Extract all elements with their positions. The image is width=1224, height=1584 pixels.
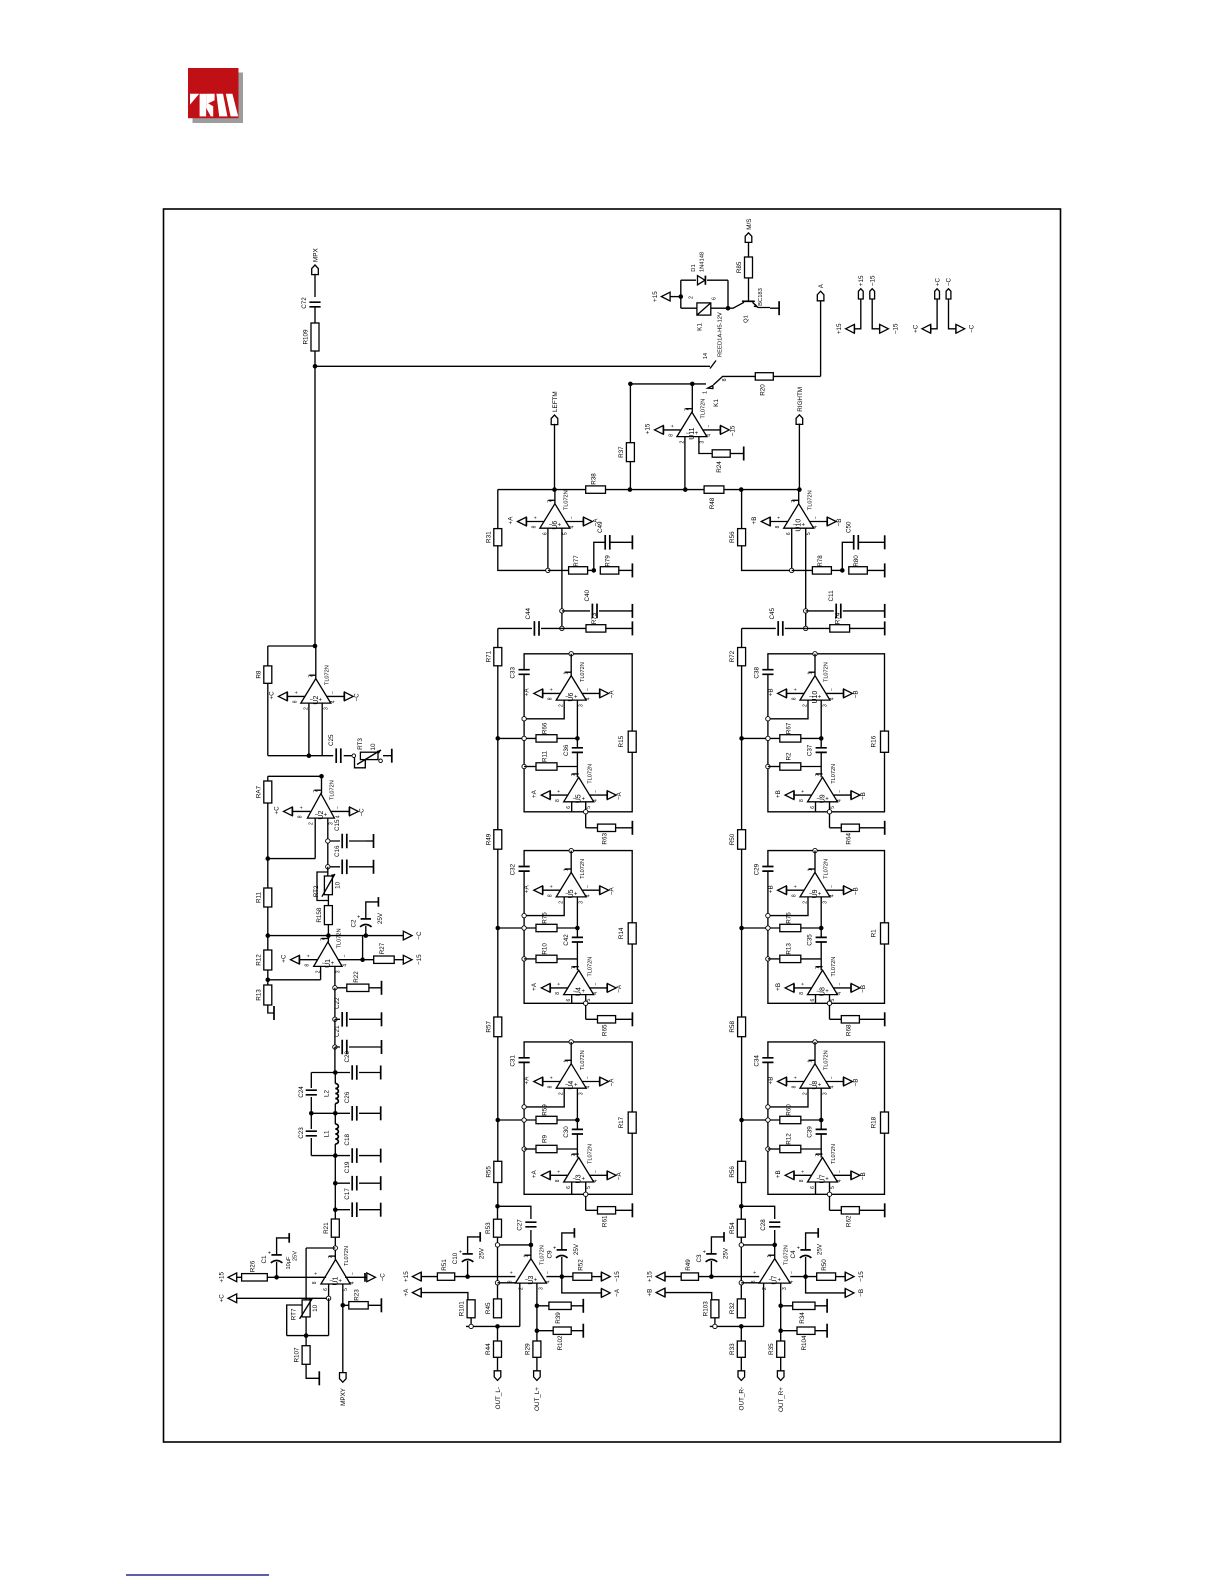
svg-text:R49: R49 xyxy=(485,833,492,845)
svg-text:+: + xyxy=(777,516,783,519)
svg-text:R52: R52 xyxy=(577,1259,584,1271)
capacitor C50 xyxy=(845,521,858,550)
svg-text:8: 8 xyxy=(722,378,728,381)
svg-text:+: + xyxy=(753,1271,759,1274)
wire RT2 wiper loop xyxy=(317,872,328,906)
svg-text:+C: +C xyxy=(934,278,941,287)
node feedback xyxy=(529,1243,534,1248)
op-amp U8 xyxy=(775,957,867,1002)
svg-text:3: 3 xyxy=(699,440,705,443)
wire edge to R10 xyxy=(524,958,536,960)
wire edge to R9 xyxy=(524,1148,536,1150)
terminal bar (R23) xyxy=(380,1298,382,1312)
terminal bar (C22) xyxy=(381,1012,383,1026)
svg-text:7: 7 xyxy=(571,773,577,776)
node C16 junction xyxy=(326,865,330,869)
node left edge pin2 xyxy=(522,717,526,721)
svg-text:U10: U10 xyxy=(796,519,803,532)
wire C15 line xyxy=(328,840,366,842)
capacitor C36 xyxy=(563,744,583,756)
power arrow -15 (U1a) xyxy=(403,954,423,965)
wire R12 to mid xyxy=(801,1148,821,1150)
svg-text:+: + xyxy=(314,1272,320,1275)
capacitor C27 xyxy=(516,1219,536,1231)
switch K1 contact xyxy=(703,376,729,407)
node rail R12/R13 xyxy=(266,978,271,983)
svg-text:R8: R8 xyxy=(255,670,262,679)
terminal bar (R65) xyxy=(631,1012,633,1026)
svg-text:R61: R61 xyxy=(602,1215,609,1227)
power arrow +C xyxy=(930,325,932,334)
node R45 bottom xyxy=(495,1324,500,1329)
wire U11 pin3 to R24 xyxy=(699,437,712,454)
svg-text:4: 4 xyxy=(593,1179,599,1182)
svg-text:−C: −C xyxy=(946,278,953,287)
wire U9 pin5 down xyxy=(829,802,831,828)
node left edge pin2 xyxy=(522,1105,526,1109)
svg-text:−: − xyxy=(586,688,592,691)
wire R20 to A xyxy=(773,300,820,377)
svg-text:8: 8 xyxy=(792,894,798,897)
wire C1 lead xyxy=(276,1262,278,1277)
node bottom edge xyxy=(827,810,831,814)
svg-text:2: 2 xyxy=(308,822,314,825)
svg-text:8: 8 xyxy=(548,1085,554,1088)
svg-text:C18: C18 xyxy=(344,1134,351,1146)
wire U6 output stub xyxy=(570,654,572,676)
wire R23 leads xyxy=(343,1304,382,1306)
wire MPX to switch contact 14 xyxy=(315,365,710,367)
svg-text:C16: C16 xyxy=(334,845,341,857)
wire R9 to mid xyxy=(557,1148,577,1150)
op-amp U4 xyxy=(531,957,623,1002)
wire U10 output stub xyxy=(798,490,800,504)
svg-text:1N4148: 1N4148 xyxy=(700,252,706,272)
terminal bar (C19) xyxy=(380,1176,382,1190)
wire RIGHTM down xyxy=(798,424,800,490)
svg-text:−: − xyxy=(350,1272,356,1275)
svg-text:TL072N: TL072N xyxy=(807,490,813,510)
power connector −C xyxy=(946,278,953,299)
terminal bar (R68) xyxy=(884,1012,886,1026)
wire RA7 to line xyxy=(267,803,269,859)
power connector −15 xyxy=(869,275,876,299)
wire L2 leads xyxy=(334,1073,336,1114)
svg-text:U9: U9 xyxy=(820,794,827,803)
resistor R21 xyxy=(323,1219,340,1237)
wire U8 pin2 loop xyxy=(768,1088,808,1107)
svg-text:+: + xyxy=(509,1271,515,1274)
svg-text:TL072N: TL072N xyxy=(824,859,830,879)
wire rail top segment xyxy=(741,628,743,647)
node C21 junction xyxy=(333,1045,337,1049)
svg-text:+B: +B xyxy=(775,1170,782,1178)
wire U2b pin2 down xyxy=(314,818,316,859)
svg-text:14: 14 xyxy=(703,353,709,359)
node ladder C26 xyxy=(333,1111,338,1116)
svg-text:8: 8 xyxy=(304,964,310,967)
power arrow −A xyxy=(601,1289,603,1298)
terminal bar (R64) xyxy=(884,821,886,835)
svg-text:R55: R55 xyxy=(485,1166,492,1178)
terminal bar (C21) xyxy=(381,1040,383,1054)
node R103 bottom xyxy=(713,1324,717,1328)
op-amp U9 xyxy=(775,764,867,809)
resistor R37 xyxy=(618,443,635,462)
connector A xyxy=(817,283,825,301)
svg-text:C20: C20 xyxy=(344,1050,351,1062)
power connector +15 xyxy=(858,275,865,299)
svg-text:OUT_R-: OUT_R- xyxy=(739,1387,746,1410)
wire C24 to node B xyxy=(310,1097,312,1113)
svg-text:+: + xyxy=(670,425,676,428)
wire U4 pin5 down xyxy=(585,995,587,1020)
svg-text:C4: C4 xyxy=(790,1250,797,1259)
wire to −A arrow xyxy=(562,1277,602,1293)
power arrow -C (U1a node) xyxy=(403,931,423,940)
svg-text:C24: C24 xyxy=(298,1086,305,1098)
svg-text:−C: −C xyxy=(969,324,976,333)
svg-text:R24: R24 xyxy=(716,461,723,473)
svg-text:+: + xyxy=(801,983,807,986)
wire C72 to R109 xyxy=(314,307,316,323)
svg-text:R18: R18 xyxy=(871,1116,878,1128)
svg-text:R17: R17 xyxy=(618,1116,625,1128)
wire edge to R12 xyxy=(768,1148,780,1150)
resistor R101 xyxy=(459,1300,476,1318)
wire +A to R101 xyxy=(421,1293,468,1300)
svg-text:+: + xyxy=(801,1170,807,1173)
svg-text:+: + xyxy=(703,1250,706,1256)
resistor R103 xyxy=(702,1300,719,1318)
resistor R15 xyxy=(618,731,636,752)
svg-text:R39: R39 xyxy=(555,1312,562,1324)
wire RT7 wiper loop xyxy=(287,1305,302,1336)
terminal bar (R62) xyxy=(884,1203,886,1217)
wire bus corner down xyxy=(497,490,499,529)
svg-text:R80: R80 xyxy=(853,555,860,567)
svg-text:R67: R67 xyxy=(785,722,792,734)
connector OUT_R- xyxy=(738,1371,745,1381)
resistor R71 xyxy=(485,648,502,666)
node bottom edge xyxy=(584,1192,588,1196)
terminal bar (R13) xyxy=(273,1006,275,1020)
wire mid vertical xyxy=(820,1088,822,1157)
svg-text:R9: R9 xyxy=(542,1134,549,1143)
node left edge pin2 xyxy=(766,913,770,917)
wire C3 lead xyxy=(710,1261,712,1277)
svg-text:3: 3 xyxy=(538,1287,544,1290)
resistor R57 xyxy=(485,1017,502,1037)
svg-text:10: 10 xyxy=(370,743,377,751)
trimmer RT7 xyxy=(291,1298,320,1320)
op-amp U6 (first half) xyxy=(507,490,599,535)
wire R64 line xyxy=(830,827,885,829)
svg-text:1: 1 xyxy=(523,1255,529,1258)
wire +15 to R26 xyxy=(237,1276,242,1278)
svg-text:C35: C35 xyxy=(807,934,814,946)
svg-text:R71: R71 xyxy=(485,650,492,662)
wire R51 to U3 xyxy=(455,1276,516,1278)
svg-text:3: 3 xyxy=(823,704,829,707)
svg-text:TL072N: TL072N xyxy=(337,928,343,948)
wire R44 leads xyxy=(497,1326,499,1372)
svg-text:4: 4 xyxy=(593,992,599,995)
wire R107 ground stub xyxy=(306,1364,319,1378)
svg-text:+C: +C xyxy=(280,954,287,963)
svg-text:C30: C30 xyxy=(563,1126,570,1138)
capacitor C11 xyxy=(828,590,841,618)
svg-text:25V: 25V xyxy=(479,1247,486,1259)
svg-text:−B: −B xyxy=(860,985,867,993)
svg-text:−: − xyxy=(335,806,341,809)
svg-text:−: − xyxy=(789,1271,795,1274)
wire -C node to R27 line xyxy=(362,936,364,960)
wire R2 to mid xyxy=(801,766,821,768)
wire U8 output stub xyxy=(814,1042,816,1064)
svg-text:8: 8 xyxy=(751,1280,757,1283)
wire U11 output stub xyxy=(691,384,693,412)
capacitor C32 xyxy=(510,863,530,875)
wire bus corner down xyxy=(741,490,743,529)
node MPX-switch junction xyxy=(313,364,318,369)
capacitor C26 xyxy=(344,1091,357,1120)
node U10a output xyxy=(797,487,802,492)
wire to RA7 xyxy=(268,776,322,781)
terminal bar (C49) xyxy=(631,535,633,549)
svg-text:+: + xyxy=(306,954,312,957)
wire U3 pin6 down xyxy=(571,1182,573,1194)
svg-text:C34: C34 xyxy=(753,1055,760,1067)
svg-text:R2: R2 xyxy=(785,752,792,761)
svg-text:8: 8 xyxy=(292,700,298,703)
svg-text:C11: C11 xyxy=(828,590,835,602)
svg-text:3: 3 xyxy=(782,1287,788,1290)
svg-text:OUT_L+: OUT_L+ xyxy=(534,1387,541,1411)
wire L1 leads xyxy=(334,1113,336,1155)
wire R102 line xyxy=(537,1330,583,1332)
terminal bar (R74) xyxy=(884,621,886,635)
terminal bar (C50) xyxy=(884,535,886,549)
svg-text:U7: U7 xyxy=(820,1174,827,1183)
svg-text:R65: R65 xyxy=(602,1024,609,1036)
svg-text:R57: R57 xyxy=(485,1021,492,1033)
wire R73 end xyxy=(606,627,633,629)
resistor R158 xyxy=(316,906,333,925)
svg-text:C37: C37 xyxy=(807,744,814,756)
wire pin2 line xyxy=(268,858,315,860)
svg-text:TL072N: TL072N xyxy=(831,1144,837,1164)
resistor R29 xyxy=(524,1341,541,1357)
node R32 bottom xyxy=(739,1324,744,1329)
svg-text:R68: R68 xyxy=(845,1024,852,1036)
svg-text:R104: R104 xyxy=(801,1335,808,1351)
svg-text:C32: C32 xyxy=(510,863,517,875)
wire U6 pin6 down xyxy=(547,528,549,570)
wire R37 to bus xyxy=(629,462,631,490)
svg-text:4: 4 xyxy=(342,964,348,967)
node output power xyxy=(803,1274,808,1279)
resistor R79 xyxy=(600,555,619,574)
svg-text:8: 8 xyxy=(668,434,674,437)
svg-text:R12: R12 xyxy=(785,1133,792,1145)
wire to R73 xyxy=(806,627,830,629)
svg-text:+B: +B xyxy=(775,790,782,798)
wire R103 bottom xyxy=(714,1318,716,1327)
svg-text:U6: U6 xyxy=(552,521,559,530)
svg-text:+: + xyxy=(797,1246,800,1252)
svg-text:1: 1 xyxy=(808,868,814,871)
svg-text:R45: R45 xyxy=(485,1302,492,1314)
svg-text:+A: +A xyxy=(524,1076,531,1085)
wire R24 end xyxy=(730,453,744,455)
svg-text:+C: +C xyxy=(273,806,280,815)
svg-text:4: 4 xyxy=(706,434,712,437)
resistor RA7 xyxy=(255,781,272,803)
svg-text:8: 8 xyxy=(297,815,303,818)
resistor R50 xyxy=(729,830,746,850)
svg-text:−A: −A xyxy=(616,791,623,800)
node rail tap xyxy=(496,736,501,741)
svg-text:R50: R50 xyxy=(821,1259,828,1271)
svg-text:+: + xyxy=(793,688,799,691)
svg-text:R38: R38 xyxy=(591,473,598,485)
wire filter box outline xyxy=(768,851,885,1004)
node rail tap xyxy=(496,1118,501,1123)
capacitor C19 xyxy=(344,1161,357,1190)
wire R63 line xyxy=(586,827,633,829)
node U10 output xyxy=(813,652,817,656)
svg-text:C40: C40 xyxy=(584,589,591,601)
capacitor C39 xyxy=(807,1126,827,1138)
node left edge crossing xyxy=(766,1118,770,1122)
svg-text:+B: +B xyxy=(751,517,758,525)
power arrow -C (U1b) xyxy=(364,1273,366,1282)
inductor L1 xyxy=(323,1124,338,1144)
node R22 junction xyxy=(333,986,337,990)
capacitor C28 xyxy=(760,1219,780,1231)
wire R77-R79 xyxy=(588,569,594,571)
resistor R55 xyxy=(485,1161,502,1182)
node left edge RB xyxy=(766,957,770,961)
svg-text:+: + xyxy=(549,1076,555,1079)
wire R12 leads xyxy=(267,936,269,980)
resistor R85 xyxy=(736,257,753,278)
terminal bar (R107) xyxy=(318,1371,320,1385)
svg-text:+: + xyxy=(549,688,555,691)
svg-text:3: 3 xyxy=(323,707,329,710)
svg-text:R75: R75 xyxy=(542,912,549,924)
resistor R68 xyxy=(841,1016,859,1036)
svg-text:−C: −C xyxy=(358,808,365,817)
node rail tap xyxy=(739,926,744,931)
wire C28 branch xyxy=(741,1206,774,1245)
power arrow +15 xyxy=(853,325,855,334)
power arrow +A xyxy=(420,1288,422,1297)
node R104 junction xyxy=(778,1328,783,1333)
svg-text:25V: 25V xyxy=(292,1251,298,1261)
wire rail to U1a node line xyxy=(268,935,329,937)
connector RIGHTM xyxy=(796,387,804,424)
resistor R61 xyxy=(598,1207,616,1227)
node rail/U2b junction xyxy=(266,856,271,861)
svg-text:4: 4 xyxy=(837,992,843,995)
svg-text:+A: +A xyxy=(403,1288,410,1297)
connector OUT_L+ xyxy=(534,1371,541,1381)
resistor R34 xyxy=(793,1302,815,1324)
svg-text:+: + xyxy=(299,806,305,809)
wire U2a output stub xyxy=(315,646,317,679)
svg-text:C3: C3 xyxy=(696,1254,703,1263)
node rail C27 tap xyxy=(495,1204,500,1209)
connector M/S xyxy=(745,219,753,243)
svg-text:1: 1 xyxy=(564,1060,570,1063)
svg-text:−C: −C xyxy=(353,693,360,702)
wire R76 to mid xyxy=(801,927,821,929)
svg-text:25V: 25V xyxy=(722,1247,729,1259)
wire left rail xyxy=(497,666,499,1207)
op-amp U1 (second half) xyxy=(312,1246,356,1291)
wire feedback line xyxy=(741,1244,774,1246)
svg-text:TL072N: TL072N xyxy=(783,1245,789,1265)
svg-text:U8: U8 xyxy=(820,987,827,996)
node output power xyxy=(560,1274,565,1279)
node U9 output xyxy=(813,848,817,852)
terminal bar (C40) xyxy=(631,604,633,618)
node left edge RB xyxy=(522,957,526,961)
svg-text:U5: U5 xyxy=(576,794,583,803)
resistor R2 xyxy=(780,752,801,770)
wire U6 pin2 loop xyxy=(524,700,564,719)
node rail feedback xyxy=(495,1243,499,1247)
svg-text:4: 4 xyxy=(335,815,341,818)
svg-text:R109: R109 xyxy=(303,329,310,345)
wire U1b to -C xyxy=(345,1276,367,1278)
wire U6 output stub xyxy=(554,490,556,504)
svg-text:−A: −A xyxy=(614,1288,621,1297)
wire U1b pin6 xyxy=(328,1284,330,1298)
wire R29 lead xyxy=(536,1357,538,1372)
svg-text:R76: R76 xyxy=(785,912,792,924)
wire rail to R60 xyxy=(742,1119,780,1121)
wire cap lead xyxy=(561,1257,563,1277)
wire U2b pin3 down xyxy=(327,818,329,841)
svg-text:+15: +15 xyxy=(647,1271,654,1282)
node left edge RB xyxy=(522,1147,526,1151)
wire R73 end xyxy=(850,627,885,629)
node U11 output xyxy=(690,382,695,387)
wire +15 to R51 xyxy=(421,1276,437,1278)
svg-text:R72: R72 xyxy=(729,650,736,662)
wire U4 pin6 down xyxy=(571,995,573,1004)
node U2a output xyxy=(313,644,318,649)
power arrow +15 (U7 input) xyxy=(664,1272,666,1281)
wire U8 pin5 down xyxy=(829,995,831,1020)
wire R8 to feedback line xyxy=(267,683,269,755)
svg-text:C31: C31 xyxy=(510,1055,517,1067)
wire R61 line xyxy=(586,1209,633,1211)
wire to U7 apex xyxy=(774,1245,776,1259)
terminal bar (R22) xyxy=(381,981,383,995)
svg-text:1: 1 xyxy=(564,868,570,871)
wire to R73 xyxy=(562,627,586,629)
resistor R50 xyxy=(817,1259,836,1281)
wire R13 to mid xyxy=(801,958,821,960)
svg-text:R44: R44 xyxy=(485,1343,492,1355)
wire U3 pin2 xyxy=(519,1283,521,1326)
wire edge to R13 xyxy=(768,958,780,960)
connector MPX xyxy=(312,248,320,275)
